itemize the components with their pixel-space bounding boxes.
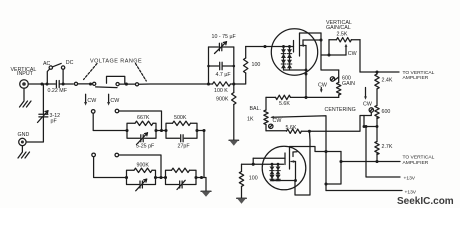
node 2.4K top (375, 70, 378, 73)
label VERTICAL GAIN/CAL (326, 20, 352, 31)
node wiper loop left (363, 125, 366, 128)
wire Q1 gate2 to gain pot line (303, 39, 321, 41)
svg-text:GND: GND (18, 132, 30, 138)
wire -13V rail (326, 190, 402, 192)
node Q2 drain crossing (324, 150, 327, 153)
node upper net mid-left (154, 129, 157, 132)
node link right (125, 83, 128, 86)
wire Q2 gate resistor drop (241, 164, 243, 171)
node main line (89, 82, 92, 85)
node Q2 bus source junction (294, 179, 297, 182)
potentiometer R 1K BAL (264, 97, 268, 130)
svg-text:0.22 MF: 0.22 MF (48, 88, 68, 94)
contact wafer B2 upper (115, 109, 119, 113)
transistor Q1 gate bar (293, 41, 295, 53)
label VERTICAL INPUT (11, 67, 37, 77)
wire main line to compensation block (139, 83, 209, 85)
node lower net mid-right (164, 176, 167, 179)
node comp mid left (207, 65, 210, 68)
wire gate line to Q1 (246, 46, 294, 48)
node drain riser to centering column (324, 182, 327, 185)
node lower net right (194, 176, 197, 179)
potentiometer R 2.5K gain/cal (329, 38, 360, 42)
label +13V lower (405, 190, 417, 196)
svg-text:10 - 75 µF: 10 - 75 µF (212, 34, 237, 40)
wire comp block sides (209, 47, 234, 84)
wire 600 GAIN bottom to Q1 source node (306, 96, 339, 98)
node lower tap2 (159, 176, 162, 179)
resistor R 667K (127, 121, 156, 130)
node Q2 entry junction (252, 163, 255, 166)
wire Q2 source riser (295, 131, 310, 195)
wire 2.5K left edge (328, 40, 330, 55)
node Q2 diode bus left (271, 163, 274, 166)
wire lower mid (156, 177, 166, 179)
label CW wafer B2 (110, 98, 119, 104)
wire 2.5K wiper rail (321, 54, 346, 56)
svg-text:pF: pF (51, 119, 58, 125)
wire 2.5K wiper arrow (345, 44, 348, 55)
wire B1 to upper network (93, 113, 127, 130)
svg-text:TO VERTICAL: TO VERTICAL (403, 155, 435, 161)
capacitor C1 0.22 MF coupling (56, 81, 73, 88)
node wiper loop right (376, 125, 379, 128)
wire Q2 source with arrow (291, 160, 296, 180)
wire to vertical amplifier upper (360, 71, 399, 73)
svg-text:4.7 µF: 4.7 µF (216, 72, 232, 78)
wire CW arrow 600 pot (364, 88, 367, 100)
svg-text:5.6K: 5.6K (286, 125, 297, 131)
wire J1 shell to ground (23, 88, 25, 100)
wire upper net to shunt column (197, 130, 204, 132)
node 2.5K left bottom (327, 53, 330, 56)
resistor R 100 Q2 gate (239, 172, 243, 198)
wire node to centering box (309, 116, 364, 132)
wire dashed linkage left (84, 64, 97, 80)
transistor Q2 gate bar (284, 153, 286, 165)
node Q1 bus to source (305, 69, 308, 72)
svg-text:27pF: 27pF (178, 143, 191, 149)
wire to vertical amplifier lower (341, 161, 400, 163)
wire Q2 gate2 link (293, 151, 297, 153)
svg-text:AMPLIFIER: AMPLIFIER (403, 160, 429, 166)
wire dashed linkage right (136, 64, 147, 82)
node Q1 source / 5.6K junction (304, 96, 307, 99)
resistor R 100K series (209, 82, 234, 86)
svg-text:CW: CW (348, 51, 357, 57)
capacitor C 3-12 pF trimmer (38, 111, 49, 123)
diode stack D4 Q2 (276, 164, 281, 181)
node comp block left (207, 82, 210, 85)
wire Q1 diode bottom bus (284, 69, 307, 71)
diode stack D2 Q1 (287, 47, 292, 71)
resistor R lower second (166, 168, 197, 177)
contact voltage range wafer A1 (74, 82, 77, 85)
wire B1 lower to 900K network (94, 157, 127, 178)
wire B2 lower to tap (119, 155, 161, 178)
node gate line (263, 45, 266, 48)
svg-text:CW: CW (363, 102, 372, 108)
wire +13V feed (366, 127, 400, 178)
diode cathode bars Q2 (270, 171, 281, 180)
wire 600 wiper loop (364, 112, 377, 126)
svg-text:CW: CW (87, 98, 96, 104)
wire Q1 drain rail down to 600 gain pot (321, 33, 339, 70)
wire CW arrow B1 (85, 94, 87, 103)
resistor R 100 gate stopper (244, 47, 248, 74)
svg-text:667K: 667K (137, 115, 150, 121)
node main line junction (40, 82, 43, 85)
wire GND jack to ground (21, 146, 23, 152)
svg-text:100: 100 (249, 176, 258, 182)
svg-text:100 K: 100 K (214, 88, 228, 94)
resistor R 2.4K (375, 72, 379, 106)
svg-text:GAIN: GAIN (342, 81, 355, 87)
capacitor C trimmer lower (127, 178, 156, 191)
connector J1 vertical input jack (20, 80, 29, 89)
wire Q2 drain riser to amplifier line (326, 152, 341, 185)
svg-text:500K: 500K (174, 115, 187, 121)
label TO VERTICAL AMPLIFIER upper (403, 70, 435, 81)
label CW 600 GAIN (318, 82, 327, 88)
wire B2 to network tap (119, 111, 162, 131)
wiper terminal BAL pot (269, 124, 273, 128)
capacitor C 27pF (166, 131, 197, 142)
connector GND jack (19, 138, 26, 145)
node drain/gate2 junction (319, 38, 322, 41)
transistor Q1 FET envelope (271, 29, 317, 75)
label VOLTAGE RANGE (90, 58, 142, 64)
node lower net left (125, 176, 128, 179)
svg-text:CW: CW (273, 118, 282, 124)
wire main line (119, 83, 135, 85)
node upper net mid-right (164, 129, 167, 132)
node Q1 diode bus right (288, 45, 291, 48)
wire BAL wiper to centering column (283, 116, 327, 191)
wire right node to gate resistor (234, 73, 246, 84)
label BAL. (250, 106, 261, 112)
node comp mid right (233, 65, 236, 68)
node upper net left (125, 129, 128, 132)
wire range switch wiper arm (96, 86, 117, 89)
label watermark SeekIC.com (397, 196, 454, 207)
svg-text:2.7K: 2.7K (382, 144, 393, 150)
svg-text:AC: AC (43, 61, 51, 67)
potentiometer R 600 GAIN (337, 70, 341, 97)
node +13V feed top (365, 125, 368, 128)
switch S1 AC/DC coupling (47, 63, 64, 84)
transistor Q1 channel bar (299, 34, 301, 56)
transistor Q2 FET envelope (262, 146, 306, 190)
ground (hatch) under GND jack (18, 152, 30, 158)
resistor R 2.7K (375, 142, 379, 162)
node switch right leg (62, 82, 65, 85)
label CW 600 pot (363, 102, 372, 108)
resistor R 900K lower (127, 168, 156, 177)
svg-text:VOLTAGE RANGE: VOLTAGE RANGE (90, 58, 142, 64)
svg-text:CW: CW (318, 82, 327, 88)
capacitor C 5-25 pF trimmer (127, 131, 156, 145)
contact wafer B1 lower (92, 153, 96, 157)
node lower amp line crossing (339, 160, 342, 163)
wire shunt column (203, 131, 205, 178)
wire BAL bottom to 5.6K lower (266, 130, 287, 132)
label 1K (247, 116, 254, 122)
node comp block right (232, 82, 235, 85)
resistor R 5.6K upper (266, 95, 306, 99)
svg-text:2.5K: 2.5K (337, 31, 348, 37)
node Q1 source exit (305, 73, 308, 76)
node upper net right (195, 129, 198, 132)
wire tap junction (156, 130, 166, 132)
svg-text:BAL.: BAL. (250, 106, 261, 112)
svg-text:SeekIC.com: SeekIC.com (397, 196, 454, 207)
svg-text:100: 100 (252, 62, 261, 68)
capacitor C 10-75 trimmer (209, 42, 234, 54)
diode cathode bars Q1 (281, 54, 292, 64)
wire main line (78, 83, 93, 85)
svg-text:2.4K: 2.4K (382, 78, 393, 84)
wiper terminal 600 pot (369, 108, 373, 112)
wire to ground stub (196, 178, 206, 191)
label CW wafer B1 (87, 98, 96, 104)
node shunt column top (202, 129, 205, 132)
svg-text:INPUT: INPUT (17, 71, 34, 77)
node 2.7K bottom (375, 160, 378, 163)
ground (arrow) under 900K (229, 140, 239, 146)
wiper terminal 600 GAIN (330, 77, 338, 81)
ground (arrow) attenuator shunt (201, 191, 211, 197)
node 5.6K lower / Q2 source (308, 130, 311, 133)
wire main input line (28, 83, 55, 85)
resistor R 500K (166, 121, 197, 130)
label CENTERING (325, 107, 356, 113)
label GND (18, 132, 30, 138)
potentiometer R 600 (375, 106, 379, 142)
svg-text:1K: 1K (247, 116, 254, 122)
transistor Q1 gate2 bar (302, 40, 304, 45)
capacitor C 4.7 (209, 62, 234, 69)
resistor R 5.6K lower (287, 129, 310, 133)
ground (arrow) under 100 (237, 198, 247, 204)
svg-text:AMPLIFIER: AMPLIFIER (403, 75, 429, 81)
svg-text:CW: CW (110, 98, 119, 104)
wire shorting link of range switch (107, 76, 125, 83)
svg-text:TO VERTICAL: TO VERTICAL (403, 70, 435, 76)
wire branch down to trimmer (42, 84, 44, 114)
contact wafer B1 upper (91, 110, 95, 114)
wire CW arrow 600 GAIN (320, 88, 323, 93)
node lower tap (154, 176, 157, 179)
wire Q1 source with arrow (301, 44, 307, 97)
svg-text:5-25 pF: 5-25 pF (136, 143, 155, 149)
label CW 2.5K (348, 51, 357, 57)
wire Q2 diode bottom bus (272, 180, 296, 182)
resistor R 900K shunt (232, 84, 236, 140)
node switch left leg (45, 82, 48, 85)
transistor Q2 channel bar (289, 149, 291, 169)
svg-text:900K: 900K (137, 163, 150, 169)
wire BAL wiper arrow and CW (270, 116, 282, 119)
contact wafer B2 lower (115, 153, 119, 157)
svg-text:+13V: +13V (405, 190, 417, 196)
svg-text:600: 600 (382, 109, 391, 115)
svg-text:CENTERING: CENTERING (325, 107, 356, 113)
svg-text:5.6K: 5.6K (279, 101, 290, 107)
node tap (160, 129, 163, 132)
transistor Q2 gate2 bar (292, 152, 294, 157)
wire Q1 drain (300, 33, 322, 34)
svg-text:DC: DC (66, 60, 74, 66)
svg-text:+13V: +13V (404, 175, 416, 181)
label +13V upper (404, 175, 416, 181)
wire CW arrow B2 (108, 94, 110, 103)
contact voltage range wafer A2 (93, 82, 96, 85)
wire Q2 gate entry (253, 157, 285, 159)
capacitor C lower second (166, 178, 197, 190)
contact voltage range wafer A3 (116, 83, 119, 86)
diode stack D1 Q1 (281, 47, 286, 71)
contact voltage range wafer A4 (135, 83, 138, 86)
wire 2.5K right edge down (359, 40, 361, 72)
ground (hatch) under input jack (20, 101, 32, 107)
wire trimmer to GND jack (26, 117, 43, 142)
wire Q2 diode bus entry (242, 158, 284, 164)
svg-text:GAIN/CAL: GAIN/CAL (326, 25, 351, 31)
wire Q2 drain (290, 147, 342, 152)
diode stack D3 Q2 (270, 164, 275, 181)
svg-text:900K: 900K (216, 96, 229, 102)
node ground stub (200, 176, 203, 179)
node Q1 diode bus left (282, 45, 285, 48)
label TO VERTICAL AMPLIFIER lower (403, 155, 435, 166)
node Q2 diode bus right (277, 163, 280, 166)
